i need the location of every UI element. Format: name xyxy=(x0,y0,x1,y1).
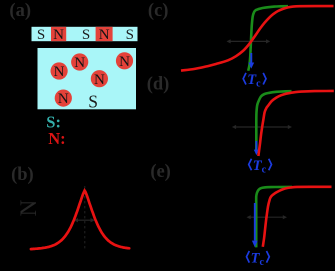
(e) vertical transition curve (green) xyxy=(256,187,292,248)
dashed vertical line at peak xyxy=(84,186,86,249)
N grain circle 5 xyxy=(55,90,72,107)
(e) label <Tc> xyxy=(247,251,250,263)
N grain circle 1 xyxy=(71,53,88,70)
(c) label <Tc> xyxy=(243,73,246,85)
(d) broad onset curve (red) xyxy=(258,91,333,156)
svg-text:S: S xyxy=(37,27,45,43)
svg-text:N: N xyxy=(16,199,41,216)
svg-text:S: S xyxy=(126,27,134,43)
svg-text:N:: N: xyxy=(48,129,65,148)
(c) mean Tc blue arrow xyxy=(250,53,252,63)
svg-text:(b): (b) xyxy=(11,165,34,185)
svg-text:N: N xyxy=(74,55,85,71)
svg-text:N: N xyxy=(54,64,65,80)
svg-text:(c): (c) xyxy=(148,1,169,21)
(d) label <Tc> xyxy=(249,159,252,171)
svg-text:N: N xyxy=(53,27,64,43)
N grain circle 4 xyxy=(91,70,108,87)
(e) mean Tc blue arrow xyxy=(254,203,256,241)
(d) transition width double arrow xyxy=(235,126,289,128)
svg-text:N: N xyxy=(94,72,105,88)
(d) mean Tc blue arrow xyxy=(255,141,257,150)
(e) steep transition curve (red) xyxy=(263,187,332,247)
svg-text:(a): (a) xyxy=(9,1,31,21)
(c) sharp transition curve (green) xyxy=(248,6,288,71)
sample box xyxy=(38,48,137,109)
(c) transition width double arrow xyxy=(230,40,267,42)
magnet bar red N pole block 1 xyxy=(51,27,66,41)
(d) sharp onset curve (green) xyxy=(256,91,291,152)
Tc distribution gaussian curve xyxy=(31,191,129,250)
svg-text:(d): (d) xyxy=(147,75,170,95)
svg-text:S: S xyxy=(88,92,98,112)
N grain circle 2 xyxy=(51,62,68,79)
magnet bar red N pole block 2 xyxy=(96,27,113,41)
magnet bar strip xyxy=(32,27,138,41)
svg-text:N: N xyxy=(58,91,69,107)
svg-text:(e): (e) xyxy=(150,162,171,182)
(e) transition width double arrow xyxy=(250,216,284,218)
FWHM double arrow xyxy=(77,219,92,221)
N grain circle 3 xyxy=(116,52,133,69)
svg-text:N: N xyxy=(119,54,130,70)
(c) broad transition curve (red) xyxy=(181,6,334,71)
svg-text:S: S xyxy=(82,27,90,43)
svg-text:N: N xyxy=(99,27,110,43)
